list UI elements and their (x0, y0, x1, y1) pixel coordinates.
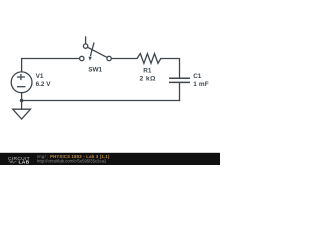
wire resistor to capacitor top (161, 59, 180, 78)
svg-text:V1: V1 (36, 73, 44, 80)
svg-text:C1: C1 (193, 73, 202, 80)
resistor R1 (137, 54, 161, 64)
SW1 actuation arrow (90, 42, 94, 56)
V1 minus sign (17, 86, 26, 88)
wire top-left (V1 top to switch) (22, 59, 80, 72)
svg-text:6.2 V: 6.2 V (36, 81, 52, 88)
SW1 lever (87, 47, 107, 57)
SW1 terminal top (83, 44, 87, 48)
wire switch to resistor (111, 58, 137, 60)
svg-text:1 mF: 1 mF (193, 81, 209, 88)
wire capacitor bottom (179, 83, 181, 101)
svg-text:R1: R1 (143, 67, 152, 74)
wire bottom rail (22, 100, 180, 102)
svg-text:LAB: LAB (19, 160, 30, 165)
SW1 terminal left (80, 56, 84, 60)
voltage source V1 (11, 72, 32, 93)
svg-text:2 kΩ: 2 kΩ (140, 75, 156, 82)
C1 plate bottom (169, 81, 190, 83)
node junction dot (20, 99, 24, 103)
switch SW1 (80, 36, 112, 60)
ground (13, 109, 31, 119)
capacitor C1 (169, 78, 190, 82)
SW1 terminal right (107, 56, 111, 60)
wire V1 bottom to ground node (21, 93, 23, 110)
V1 plus sign (17, 74, 25, 80)
SW1 terminal top stub (85, 36, 87, 44)
CircuitLab logo (8, 156, 30, 166)
footer bar (0, 153, 220, 165)
C1 plate top (169, 77, 190, 79)
svg-text:SW1: SW1 (88, 66, 102, 73)
svg-text:http://circuitlab.com/c/5e595f: http://circuitlab.com/c/5e595f35c2ea2 (37, 158, 107, 163)
